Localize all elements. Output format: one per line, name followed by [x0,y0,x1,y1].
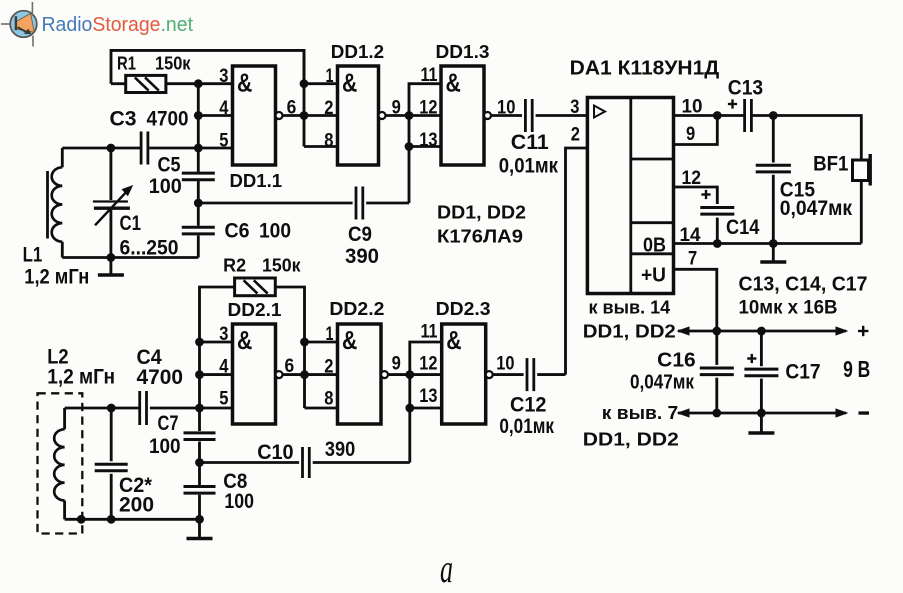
wire DA1 pin2 [566,148,588,375]
wire DA1 pin10 [674,114,718,117]
bubble DD1.2 out [379,112,386,119]
svg-text:2: 2 [571,125,580,146]
wire C9 right [366,202,409,205]
svg-text:&: & [342,67,357,97]
label C16 [630,349,696,394]
pin labels DA1 right [680,97,703,270]
capacitor C12 [527,358,534,391]
svg-text:6: 6 [285,356,295,377]
wire DD1.2 pin2 [304,114,338,117]
wire DD2.2 pin2 [305,373,338,376]
DA1 +U cell [641,264,666,287]
svg-text:200: 200 [119,494,154,517]
node DD2.2 in2 [300,370,309,379]
ground under C15 [760,244,786,263]
capacitor C1 variable [93,148,133,258]
gate DD2.2 [338,324,382,424]
svg-text:C13: C13 [728,77,763,100]
label a italic [440,546,453,591]
label C9 [345,223,379,268]
svg-text:C7: C7 [158,412,179,435]
wire L1 top [62,147,141,150]
wire DD2.3 pin12 [410,373,442,376]
svg-text:RadioStorage.net: RadioStorage.net [42,13,194,36]
label C7 [149,412,181,458]
svg-text:C11: C11 [511,131,549,154]
wire DA1 pin9 [674,116,718,145]
svg-text:C17: C17 [785,360,820,384]
wire DD2.1 pin3 [200,341,233,344]
svg-text:C9: C9 [348,223,372,246]
label k vyv 7 [583,402,679,450]
wire C13 right [751,114,773,117]
svg-text:DD1.1: DD1.1 [230,171,283,191]
wire top feedback loop R1 [111,50,304,83]
ground under C1 [98,258,124,276]
wire DA1 pin7 [674,269,717,331]
capacitor C17 [744,331,778,413]
capacitor C13 [745,99,752,132]
svg-text:К176ЛА9: К176ЛА9 [437,227,523,247]
label pin10 DD1.3 [497,98,515,119]
svg-text:4: 4 [219,357,229,378]
svg-text:&: & [446,67,461,97]
svg-text:к выв. 7: к выв. 7 [602,402,678,423]
wire pin14 rail [674,242,862,245]
label DD2.2 [329,298,384,319]
svg-text:R1: R1 [117,54,136,74]
label C4 [137,346,184,389]
svg-text:150к: 150к [155,54,191,74]
pin labels DA1 left [570,97,580,146]
inductor L2 [54,408,64,519]
gate DD1.1 [233,66,276,165]
L1 core [46,171,49,239]
minus sign [859,411,870,414]
label R2 [223,256,301,276]
node C1 bottom [107,253,116,262]
svg-text:+U: +U [641,264,666,287]
svg-text:0,047мк: 0,047мк [630,371,695,394]
svg-text:10мк х 16В: 10мк х 16В [739,297,838,319]
label C13 [728,77,763,109]
wire DD2.2 pin8 [305,407,338,410]
svg-text:13: 13 [419,386,437,407]
svg-text:390: 390 [345,245,379,268]
wire to BF1 [773,116,861,161]
label L1 [23,243,90,289]
label pin9 DD1.2 [392,98,401,119]
label DD2.3 [436,298,491,319]
label pin6 DD1.1 [287,98,297,119]
node DD1.3 pin13 [405,142,414,151]
svg-text:150к: 150к [262,256,301,276]
wire DD1.1 pin 4 [198,114,232,117]
node C10 tap [195,458,204,467]
svg-text:DD1.3: DD1.3 [436,41,490,62]
plus C17 [747,354,756,363]
svg-text:C5: C5 [158,154,181,177]
svg-text:C14: C14 [726,216,760,239]
label C11 [499,131,559,178]
wire DD1.3 pin12 [409,114,441,117]
wire L2 top [65,407,140,410]
rail minus [677,408,849,417]
svg-text:5: 5 [219,130,229,151]
svg-text:8: 8 [324,389,333,410]
svg-text:0,01мк: 0,01мк [499,415,554,438]
svg-text:12: 12 [419,98,437,119]
capacitor C6 [182,227,215,234]
svg-text:0В: 0В [643,234,666,257]
svg-text:R2: R2 [223,256,246,276]
capacitor C14 [700,208,734,215]
resistor R1 [126,75,166,92]
svg-text:1: 1 [326,324,334,345]
svg-text:0,047мк: 0,047мк [780,197,853,220]
label k vyv 14 [583,297,676,342]
shield box L2 [38,393,83,533]
wire C10 right [313,461,410,464]
svg-text:1,2 мГн: 1,2 мГн [24,266,89,289]
svg-text:DD2.1: DD2.1 [228,300,282,320]
node DD2.1 pin3 [195,338,204,347]
wire C3 to pin 5 [149,147,232,150]
svg-text:C3: C3 [110,108,137,131]
label C1 [120,212,179,260]
svg-text:9: 9 [686,124,695,145]
wire C11 to DA1 pin3 [536,114,588,117]
node pin5 [194,144,203,153]
svg-text:С13, С14, С17: С13, С14, С17 [739,273,868,296]
bubble DD2.1 out [276,371,283,378]
pin labels DD1.2 [324,66,334,151]
label BF1 [813,153,849,176]
capacitor C11 [525,99,532,132]
capacitor C7 [184,433,216,440]
capacitor C16 [700,331,734,413]
svg-text:7: 7 [688,249,697,270]
svg-text:100: 100 [224,490,254,513]
wire DD2.3 out [493,373,524,376]
label C12 [499,394,554,439]
wire R2 left [200,287,235,342]
svg-text:DD1.2: DD1.2 [331,41,384,62]
svg-text:9: 9 [392,354,401,375]
label C6 [225,220,292,243]
capacitor C5 [182,173,215,180]
wire C12 right [537,373,565,376]
svg-text:3: 3 [219,66,228,87]
label C8 [223,470,254,513]
wire DD2.1 pin4 [200,373,233,376]
label R1 [117,54,191,74]
svg-text:3: 3 [219,324,228,345]
bubble DD1.1 out [276,112,283,119]
wire DD1.1 out [283,114,305,117]
ground under C17 [748,413,774,433]
label C15 [780,179,853,221]
svg-text:BF1: BF1 [813,153,849,176]
svg-text:1: 1 [326,66,334,87]
node C1 top [107,144,116,153]
label DD1.2 [331,41,384,62]
svg-text:100: 100 [149,175,182,198]
label pin10 DD2.3 [496,354,514,375]
svg-text:10: 10 [496,354,514,375]
svg-text:10: 10 [682,97,703,118]
DA1 0V cell [643,234,666,257]
wire R2 right [275,287,304,342]
wire DD2.3 pin13 [410,407,442,410]
svg-text:100: 100 [259,220,291,243]
ground row2 [187,519,213,538]
wire DD1.3 pin13 [409,145,441,148]
label C14 [726,216,760,239]
label DD1 DD2 type [437,203,526,247]
capacitor C4 [140,391,147,425]
svg-text:9: 9 [392,98,401,119]
node C2 bottom [107,515,116,524]
node DD2.1 pin5 [195,404,204,413]
svg-text:C6: C6 [225,220,250,243]
label C3 [110,108,189,131]
node C17 rail1 [757,327,766,336]
wire R1 left [111,82,126,85]
wire L1 bottom [62,256,198,259]
capacitor C15 [756,116,791,244]
svg-text:6: 6 [287,98,297,119]
wire C4 to pin5 [150,407,233,410]
capacitor C9 [356,187,363,220]
DA1 amp triangle [594,106,605,118]
svg-text:L1: L1 [23,243,43,267]
label 9V [843,356,870,382]
label DA1 [570,58,720,80]
label C5 [149,154,182,199]
gate DD2.1 [233,324,276,424]
wire DD1.3 column [409,84,441,203]
bubble DD2.3 out [486,371,493,378]
node DD1.3 in [405,111,414,120]
wire DD2.2 column [303,342,306,408]
node pins 10-9 [713,111,722,120]
node DD2.3 pin13 [405,404,414,413]
node C17 rail2 [757,409,766,418]
svg-text:DD2.3: DD2.3 [436,298,491,319]
svg-text:C12: C12 [510,394,546,417]
node C16 rail2 [712,409,721,418]
svg-text:&: & [446,325,461,355]
wire DD1.2 pin8 [304,145,338,148]
label DD1.3 [436,41,490,62]
svg-text:9 В: 9 В [843,356,870,382]
pin labels DD1.3 [419,65,438,151]
svg-text:2: 2 [324,98,333,119]
op-amp DA1 box [587,98,673,294]
wire R1 to DD1.1 pin 3 [166,82,233,85]
wire BF1 bottom [860,181,863,244]
wire input column row2 [198,342,201,519]
node C15 bottom [769,239,778,248]
svg-text:C10: C10 [257,441,293,464]
node DD2.1 pin4 [195,370,204,379]
node pin4 [194,111,203,120]
wire DD2.2 pin1 [305,341,338,344]
svg-text:4700: 4700 [147,108,189,131]
svg-text:11: 11 [421,322,438,343]
capacitor C8 [184,487,216,494]
label pin9 DD2.2 [392,354,401,375]
node C9 tap [194,199,203,208]
wire C9 left [198,202,352,205]
label DD2.1 [228,300,282,320]
inductor L1 [52,148,63,258]
gate DD1.2 [338,66,379,165]
gate DD1.3 [441,66,484,165]
label pin6 DD2.1 [285,356,295,377]
plus rail1 [858,326,868,336]
logo RadioStorage.net [1,2,193,47]
label C2 [119,474,154,517]
label C17 [785,360,820,384]
svg-text:13: 13 [419,130,437,151]
wire L2 bottom [65,518,200,521]
node DD1.2 in 2 [300,111,309,120]
wire DD1.2 pin1 [304,82,338,85]
wire input column row1 [197,84,200,258]
resistor R2 [235,278,276,296]
speaker BF1 [853,154,872,186]
wire DD1.3 out to C11 [491,114,522,117]
svg-text:12: 12 [419,354,437,375]
node DD1.2 in 1 [300,79,309,88]
node shield ground [77,515,86,524]
label C13 C14 C17 [739,273,868,319]
label DD1.1 [230,171,283,191]
label L2 [47,345,115,389]
svg-text:1,2 мГн: 1,2 мГн [47,366,115,389]
node C15 top [769,111,778,120]
node C2 top [107,404,116,413]
capacitor C10 [303,447,310,478]
wire DD2.2 out [388,373,410,376]
pin labels DD2.3 [419,322,438,408]
gate DD2.3 [442,324,486,424]
svg-text:4700: 4700 [137,366,184,389]
svg-text:DD1, DD2: DD1, DD2 [583,429,679,450]
label C10 [257,438,355,464]
svg-text:4: 4 [219,98,229,119]
plus C14 [701,190,710,199]
svg-text:&: & [237,67,252,97]
node column bottom [195,515,204,524]
svg-text:100: 100 [149,435,181,458]
svg-text:11: 11 [421,65,438,86]
svg-text:6...250: 6...250 [120,237,179,260]
svg-text:DD1, DD2: DD1, DD2 [437,203,526,223]
wire DD2.3 column [410,342,442,463]
wire DA1 pin12 [674,187,718,204]
svg-text:390: 390 [325,438,355,461]
bubble DD1.3 out [484,112,491,119]
wire DD1.2 out [386,114,410,117]
capacitor C3 [141,132,148,165]
wire C13 left [717,114,744,117]
wire DD1.2 column [303,50,306,146]
pin labels DD2.1 [219,324,229,410]
wire C10 left [200,461,300,464]
bubble DD2.2 out [381,371,388,378]
svg-text:DD2.2: DD2.2 [329,298,384,319]
pin labels DD2.2 [324,324,334,410]
pin labels DD1.1 [219,66,229,151]
svg-text:DA1 К118УН1Д: DA1 К118УН1Д [570,58,720,80]
svg-text:2: 2 [324,357,333,378]
svg-text:10: 10 [497,98,515,119]
capacitor C2 [95,408,128,519]
node DD2.2 in1 [300,338,309,347]
svg-text:8: 8 [324,130,333,151]
svg-text:&: & [237,325,252,355]
node DD2.3 in [405,370,414,379]
node R1-pin3 [194,79,203,88]
svg-text:5: 5 [219,389,229,410]
svg-text:а: а [440,546,453,591]
svg-text:DD1, DD2: DD1, DD2 [583,321,676,342]
svg-text:к выв. 14: к выв. 14 [589,297,671,318]
svg-text:C16: C16 [657,349,696,372]
svg-text:3: 3 [570,97,579,118]
svg-text:0,01мк: 0,01мк [499,155,559,178]
wire DD2.1 out [283,373,305,376]
node C14 bottom [713,239,722,248]
svg-text:&: & [342,325,357,355]
node pin7 rail [712,327,721,336]
rail +9V [677,326,849,335]
svg-text:C1: C1 [120,212,142,235]
wire C14 bottom [716,218,719,244]
